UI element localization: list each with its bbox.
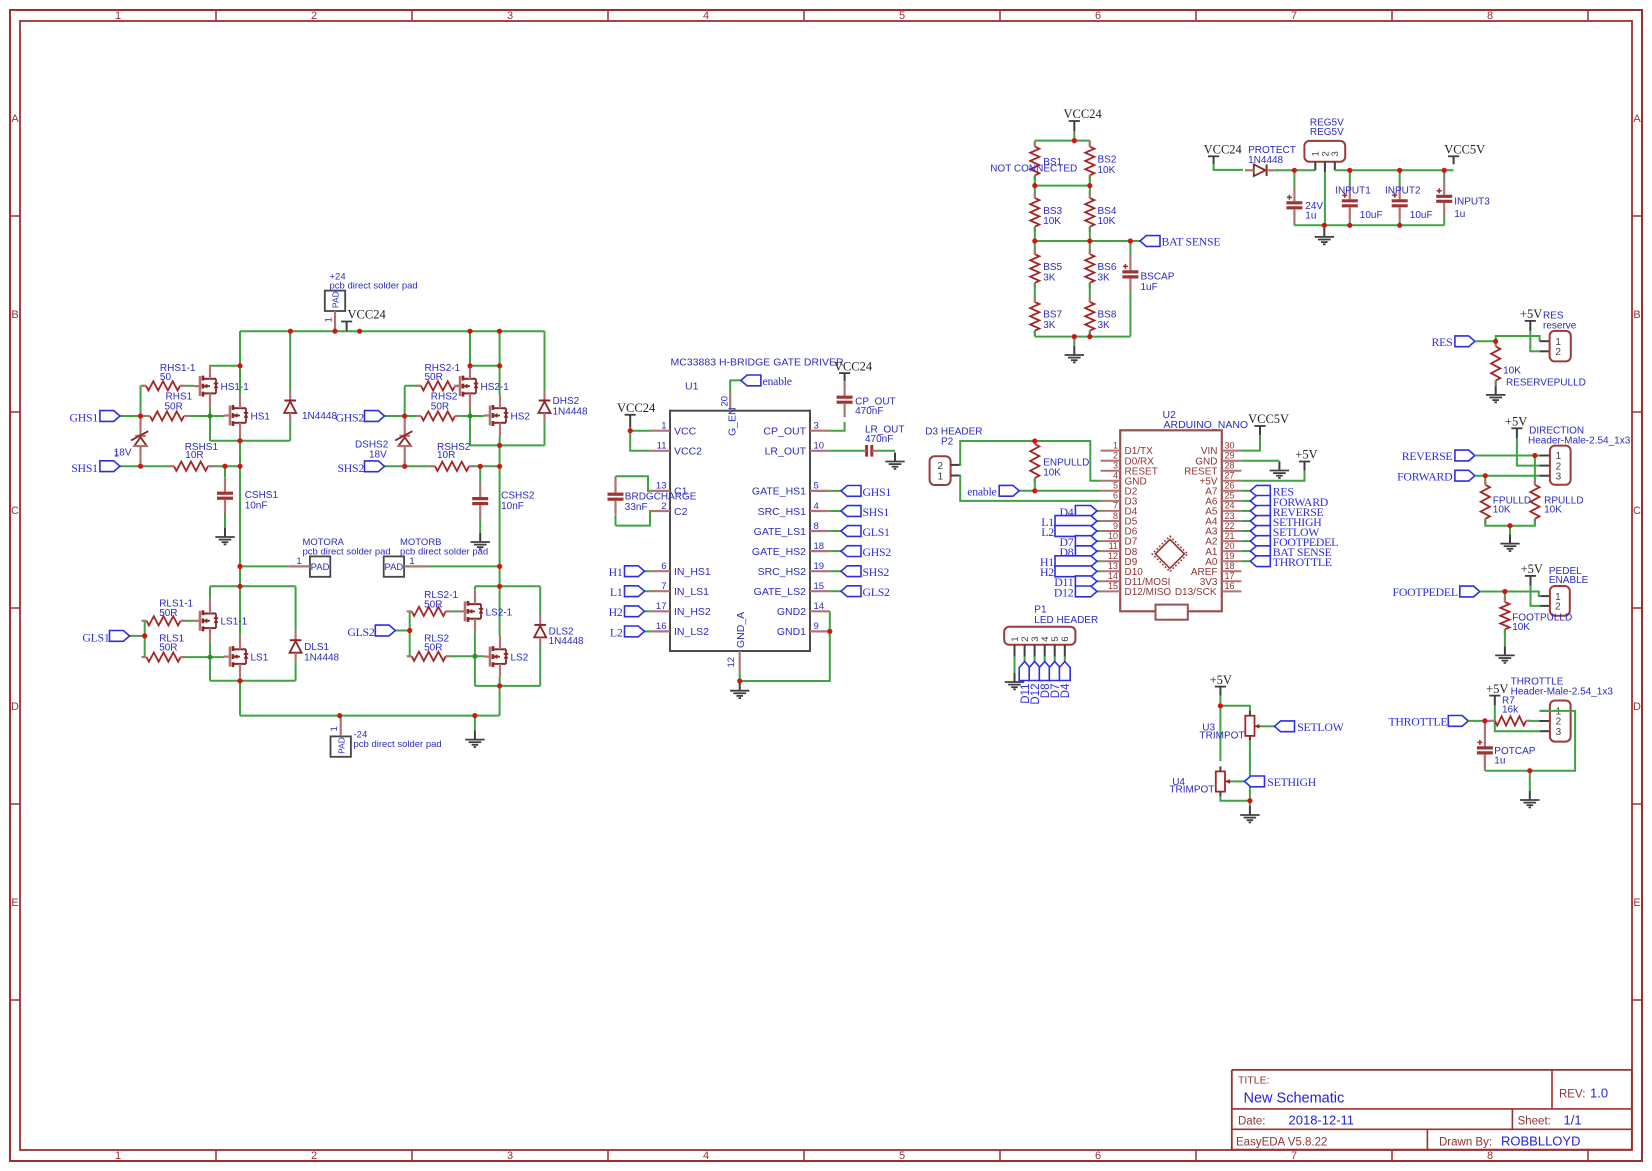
svg-text:INPUT1: INPUT1 xyxy=(1335,185,1371,196)
svg-text:Drawn By:: Drawn By: xyxy=(1439,1136,1492,1148)
svg-text:HS2: HS2 xyxy=(511,411,531,422)
svg-text:TITLE:: TITLE: xyxy=(1238,1075,1270,1087)
svg-text:GATE_LS2: GATE_LS2 xyxy=(754,586,806,598)
svg-text:16k: 16k xyxy=(1502,705,1519,716)
svg-text:LS1: LS1 xyxy=(251,653,269,664)
svg-text:Sheet:: Sheet: xyxy=(1518,1116,1551,1128)
svg-text:1N4448: 1N4448 xyxy=(302,411,337,422)
svg-text:+5V: +5V xyxy=(1520,307,1542,321)
svg-text:BS6: BS6 xyxy=(1098,262,1117,273)
svg-text:7: 7 xyxy=(661,581,666,592)
svg-text:GLS1: GLS1 xyxy=(863,525,891,539)
svg-text:8: 8 xyxy=(1487,1150,1493,1162)
svg-text:NOT CONNECTED: NOT CONNECTED xyxy=(990,164,1077,175)
svg-text:3: 3 xyxy=(507,1150,513,1162)
svg-text:ARDUINO_NANO: ARDUINO_NANO xyxy=(1164,419,1249,431)
svg-text:6: 6 xyxy=(1060,637,1071,642)
svg-text:VCC24: VCC24 xyxy=(348,308,387,322)
svg-text:20: 20 xyxy=(720,396,731,407)
svg-text:4: 4 xyxy=(1113,471,1118,481)
svg-text:BS5: BS5 xyxy=(1043,262,1062,273)
svg-text:GATE_HS2: GATE_HS2 xyxy=(752,546,806,558)
svg-text:SHS1: SHS1 xyxy=(863,505,890,519)
svg-text:DLS1: DLS1 xyxy=(304,642,329,653)
svg-text:P2: P2 xyxy=(941,436,954,447)
svg-text:21: 21 xyxy=(1225,531,1235,541)
svg-text:A: A xyxy=(1633,113,1641,125)
svg-text:EasyEDA V5.8.22: EasyEDA V5.8.22 xyxy=(1236,1136,1327,1148)
svg-text:CSHS1: CSHS1 xyxy=(245,490,279,501)
svg-text:25: 25 xyxy=(1225,491,1235,501)
svg-text:INPUT2: INPUT2 xyxy=(1385,185,1421,196)
svg-text:3: 3 xyxy=(507,10,513,22)
svg-text:SHS1: SHS1 xyxy=(71,461,98,475)
svg-text:GLS2: GLS2 xyxy=(347,625,375,639)
svg-text:10R: 10R xyxy=(437,450,455,461)
svg-text:REG5V: REG5V xyxy=(1310,127,1344,138)
svg-text:1: 1 xyxy=(1113,440,1118,450)
svg-text:FOOTPEDEL: FOOTPEDEL xyxy=(1393,585,1458,599)
svg-text:VCC5V: VCC5V xyxy=(1444,143,1485,157)
svg-text:1: 1 xyxy=(324,317,335,322)
svg-text:1u: 1u xyxy=(1305,211,1316,222)
svg-text:PAD: PAD xyxy=(331,291,341,308)
svg-text:19: 19 xyxy=(814,561,825,572)
svg-text:1: 1 xyxy=(661,421,666,432)
svg-text:ROBBLLOYD: ROBBLLOYD xyxy=(1501,1134,1580,1149)
svg-text:50R: 50R xyxy=(425,372,443,383)
svg-text:50R: 50R xyxy=(165,402,183,413)
svg-text:Date:: Date: xyxy=(1238,1116,1266,1128)
svg-text:18: 18 xyxy=(814,541,825,552)
svg-text:VCC: VCC xyxy=(674,426,697,438)
svg-text:PAD: PAD xyxy=(311,562,330,573)
svg-text:VCC24: VCC24 xyxy=(617,401,656,415)
svg-text:D12: D12 xyxy=(1054,585,1074,599)
svg-text:11: 11 xyxy=(1109,541,1118,551)
svg-text:9: 9 xyxy=(814,621,819,632)
svg-text:GND1: GND1 xyxy=(777,626,806,638)
svg-text:LS2: LS2 xyxy=(511,653,529,664)
svg-text:22: 22 xyxy=(1225,521,1235,531)
svg-text:3K: 3K xyxy=(1043,272,1056,283)
svg-text:enable: enable xyxy=(763,374,792,388)
svg-text:BRDGCHARGE: BRDGCHARGE xyxy=(625,492,697,503)
svg-text:3: 3 xyxy=(1556,471,1562,482)
svg-text:FORWARD: FORWARD xyxy=(1397,469,1453,483)
svg-text:10R: 10R xyxy=(185,450,203,461)
svg-text:1: 1 xyxy=(409,556,414,567)
svg-text:4: 4 xyxy=(703,1150,709,1162)
svg-text:1: 1 xyxy=(115,1150,121,1162)
svg-text:10nF: 10nF xyxy=(245,501,268,512)
svg-text:3K: 3K xyxy=(1098,320,1111,331)
svg-text:VCC24: VCC24 xyxy=(834,359,873,373)
svg-text:10uF: 10uF xyxy=(1360,210,1383,221)
svg-text:Header-Male-2.54_1x3: Header-Male-2.54_1x3 xyxy=(1511,686,1614,697)
svg-text:New Schematic: New Schematic xyxy=(1244,1091,1345,1107)
svg-text:reserve: reserve xyxy=(1543,321,1577,332)
svg-text:RESERVEPULLD: RESERVEPULLD xyxy=(1506,377,1586,388)
svg-text:17: 17 xyxy=(1225,571,1235,581)
svg-text:1u: 1u xyxy=(1454,209,1465,220)
svg-text:1N4448: 1N4448 xyxy=(304,652,339,663)
svg-text:VCC24: VCC24 xyxy=(1204,143,1243,157)
svg-text:470nF: 470nF xyxy=(855,406,883,417)
svg-text:ENABLE: ENABLE xyxy=(1549,575,1589,586)
svg-text:4: 4 xyxy=(814,501,819,512)
svg-text:Header-Male-2.54_1x3: Header-Male-2.54_1x3 xyxy=(1528,436,1631,447)
svg-text:5: 5 xyxy=(814,481,819,492)
svg-text:50R: 50R xyxy=(159,608,177,619)
svg-text:GHS2: GHS2 xyxy=(336,411,365,425)
svg-text:IN_LS1: IN_LS1 xyxy=(674,586,709,598)
svg-text:BS2: BS2 xyxy=(1098,154,1117,165)
svg-text:BSCAP: BSCAP xyxy=(1141,272,1175,283)
svg-text:H2: H2 xyxy=(1040,565,1054,579)
svg-text:10K: 10K xyxy=(1098,216,1116,227)
svg-text:1/1: 1/1 xyxy=(1564,1113,1582,1128)
svg-text:P1: P1 xyxy=(1034,604,1047,615)
svg-text:GLS1: GLS1 xyxy=(82,631,110,645)
svg-text:HS2-1: HS2-1 xyxy=(481,382,510,393)
svg-text:PAD: PAD xyxy=(384,562,403,573)
svg-text:+5V: +5V xyxy=(1210,673,1232,687)
svg-text:GHS1: GHS1 xyxy=(70,411,99,425)
svg-text:BS7: BS7 xyxy=(1043,310,1062,321)
svg-text:50: 50 xyxy=(160,372,172,383)
svg-text:18: 18 xyxy=(1225,561,1235,571)
svg-text:10K: 10K xyxy=(1544,505,1562,516)
svg-text:1.0: 1.0 xyxy=(1590,1086,1608,1101)
svg-text:10K: 10K xyxy=(1043,468,1061,479)
svg-text:+5V: +5V xyxy=(1505,415,1527,429)
svg-text:28: 28 xyxy=(1225,461,1235,471)
svg-text:E: E xyxy=(1633,897,1640,909)
svg-text:10: 10 xyxy=(1108,531,1118,541)
svg-text:18V: 18V xyxy=(369,449,387,460)
svg-text:50R: 50R xyxy=(431,402,449,413)
svg-text:3: 3 xyxy=(1556,727,1562,738)
svg-text:GLS2: GLS2 xyxy=(863,585,891,599)
svg-text:50R: 50R xyxy=(424,599,442,610)
svg-text:1N4448: 1N4448 xyxy=(553,406,588,417)
svg-text:+5V: +5V xyxy=(1295,448,1317,462)
svg-text:7: 7 xyxy=(1113,501,1118,511)
svg-text:H2: H2 xyxy=(609,605,623,619)
svg-text:TRIMPOT: TRIMPOT xyxy=(1169,785,1214,796)
svg-text:SRC_HS2: SRC_HS2 xyxy=(758,566,807,578)
svg-text:17: 17 xyxy=(656,601,667,612)
svg-text:10K: 10K xyxy=(1512,622,1530,633)
svg-text:14: 14 xyxy=(1108,571,1118,581)
svg-text:H1: H1 xyxy=(609,565,623,579)
svg-text:B: B xyxy=(1633,309,1640,321)
svg-text:RES: RES xyxy=(1432,335,1453,349)
svg-text:pcb direct solder pad: pcb direct solder pad xyxy=(303,546,391,557)
svg-text:3: 3 xyxy=(1113,461,1118,471)
svg-text:D4: D4 xyxy=(1060,683,1072,698)
svg-text:2: 2 xyxy=(938,461,944,472)
svg-text:SHS2: SHS2 xyxy=(863,565,890,579)
svg-text:THROTTLE: THROTTLE xyxy=(1273,555,1332,569)
svg-text:CP_OUT: CP_OUT xyxy=(763,426,806,438)
svg-text:6: 6 xyxy=(1095,1150,1101,1162)
svg-text:L2: L2 xyxy=(610,625,623,639)
svg-text:15: 15 xyxy=(1108,581,1118,591)
svg-text:10uF: 10uF xyxy=(1410,210,1433,221)
svg-text:IN_HS1: IN_HS1 xyxy=(674,566,711,578)
svg-text:33nF: 33nF xyxy=(625,502,648,513)
svg-text:12: 12 xyxy=(1108,551,1118,561)
svg-text:4: 4 xyxy=(703,10,709,22)
svg-text:VCC2: VCC2 xyxy=(674,446,702,458)
svg-text:VCC24: VCC24 xyxy=(1064,107,1103,121)
svg-text:27: 27 xyxy=(1225,471,1235,481)
svg-text:C: C xyxy=(1633,505,1641,517)
svg-text:15: 15 xyxy=(814,581,825,592)
svg-text:13: 13 xyxy=(656,481,667,492)
svg-text:10: 10 xyxy=(814,441,825,452)
svg-text:D13/SCK: D13/SCK xyxy=(1175,587,1217,598)
svg-text:GND_A: GND_A xyxy=(735,612,747,648)
svg-text:LS1-1: LS1-1 xyxy=(221,617,248,628)
svg-text:10K: 10K xyxy=(1493,505,1511,516)
svg-text:30: 30 xyxy=(1225,440,1235,450)
svg-text:SRC_HS1: SRC_HS1 xyxy=(758,506,807,518)
svg-text:SETHIGH: SETHIGH xyxy=(1267,775,1316,789)
svg-text:9: 9 xyxy=(1113,521,1118,531)
svg-text:24: 24 xyxy=(1225,501,1235,511)
svg-text:BS3: BS3 xyxy=(1043,206,1062,217)
svg-text:GHS2: GHS2 xyxy=(863,545,892,559)
svg-text:VCC5V: VCC5V xyxy=(1248,412,1289,426)
svg-text:D3 HEADER: D3 HEADER xyxy=(925,427,982,438)
svg-text:1: 1 xyxy=(329,726,340,731)
svg-text:3K: 3K xyxy=(1098,272,1111,283)
svg-text:pcb direct solder pad: pcb direct solder pad xyxy=(330,281,418,292)
svg-text:REVERSE: REVERSE xyxy=(1402,449,1453,463)
svg-text:BS4: BS4 xyxy=(1098,206,1117,217)
svg-text:16: 16 xyxy=(1225,581,1235,591)
svg-text:+5V: +5V xyxy=(1486,682,1508,696)
svg-text:14: 14 xyxy=(814,601,825,612)
svg-text:G_EN: G_EN xyxy=(726,407,738,436)
svg-text:10K: 10K xyxy=(1098,165,1116,176)
svg-text:HS1-1: HS1-1 xyxy=(221,382,250,393)
svg-text:LED HEADER: LED HEADER xyxy=(1034,615,1098,626)
svg-text:16: 16 xyxy=(656,621,667,632)
svg-text:8: 8 xyxy=(1113,511,1118,521)
svg-text:20: 20 xyxy=(1225,541,1235,551)
svg-text:1: 1 xyxy=(114,449,119,459)
svg-text:SHS2: SHS2 xyxy=(337,461,364,475)
svg-text:DHS2: DHS2 xyxy=(553,396,580,407)
svg-text:2: 2 xyxy=(1555,602,1561,613)
svg-text:1N4448: 1N4448 xyxy=(549,636,584,647)
svg-text:A: A xyxy=(11,113,19,125)
svg-text:+5V: +5V xyxy=(1521,562,1543,576)
svg-text:1: 1 xyxy=(115,10,121,22)
svg-text:E: E xyxy=(11,897,18,909)
svg-text:PROTECT: PROTECT xyxy=(1248,145,1296,156)
svg-text:11: 11 xyxy=(657,441,667,452)
svg-text:L1: L1 xyxy=(610,585,623,599)
svg-text:C: C xyxy=(11,505,19,517)
svg-text:6: 6 xyxy=(1095,10,1101,22)
svg-text:10nF: 10nF xyxy=(501,501,524,512)
svg-text:1: 1 xyxy=(296,556,301,567)
svg-text:D: D xyxy=(11,701,19,713)
svg-text:GND2: GND2 xyxy=(777,606,806,618)
svg-text:29: 29 xyxy=(1225,451,1235,461)
svg-text:2: 2 xyxy=(1555,347,1561,358)
svg-text:D12/MISO: D12/MISO xyxy=(1125,587,1172,598)
svg-text:LS2-1: LS2-1 xyxy=(486,607,513,618)
svg-text:8: 8 xyxy=(1487,10,1493,22)
svg-text:LR_OUT: LR_OUT xyxy=(765,446,807,458)
svg-text:BS1: BS1 xyxy=(1043,157,1062,168)
svg-text:BAT SENSE: BAT SENSE xyxy=(1162,235,1221,249)
svg-text:HS1: HS1 xyxy=(251,411,271,422)
svg-text:10K: 10K xyxy=(1043,216,1061,227)
svg-text:INPUT3: INPUT3 xyxy=(1454,197,1490,208)
svg-text:2: 2 xyxy=(1113,451,1118,461)
svg-text:3: 3 xyxy=(814,421,819,432)
svg-text:BS8: BS8 xyxy=(1098,310,1117,321)
svg-text:REV:: REV: xyxy=(1559,1089,1585,1101)
svg-text:U1: U1 xyxy=(685,381,699,393)
svg-text:7: 7 xyxy=(1291,1150,1297,1162)
svg-text:8: 8 xyxy=(814,521,819,532)
svg-text:19: 19 xyxy=(1225,551,1235,561)
svg-text:5: 5 xyxy=(1113,481,1118,491)
svg-text:TRIMPOT: TRIMPOT xyxy=(1200,731,1245,742)
svg-text:GATE_HS1: GATE_HS1 xyxy=(752,486,806,498)
svg-text:IN_LS2: IN_LS2 xyxy=(674,626,709,638)
svg-text:1N4448: 1N4448 xyxy=(1248,155,1283,166)
svg-text:13: 13 xyxy=(1108,561,1118,571)
svg-text:470nF: 470nF xyxy=(865,434,893,445)
svg-text:IN_HS2: IN_HS2 xyxy=(674,606,711,618)
svg-text:THROTTLE: THROTTLE xyxy=(1388,715,1447,729)
svg-text:CSHS2: CSHS2 xyxy=(501,490,535,501)
svg-text:C2: C2 xyxy=(674,506,688,518)
svg-text:2: 2 xyxy=(311,1150,317,1162)
svg-text:B: B xyxy=(11,309,18,321)
svg-text:PAD: PAD xyxy=(336,737,346,754)
svg-text:L2: L2 xyxy=(1041,525,1054,539)
svg-text:50R: 50R xyxy=(159,643,177,654)
svg-text:23: 23 xyxy=(1225,511,1235,521)
svg-text:1u: 1u xyxy=(1494,755,1505,766)
svg-text:1: 1 xyxy=(938,471,944,482)
svg-text:1uF: 1uF xyxy=(1141,282,1158,293)
svg-text:6: 6 xyxy=(661,561,666,572)
svg-text:50R: 50R xyxy=(424,643,442,654)
svg-text:5: 5 xyxy=(899,10,905,22)
svg-text:7: 7 xyxy=(1291,10,1297,22)
svg-text:GATE_LS1: GATE_LS1 xyxy=(754,526,806,538)
svg-text:3K: 3K xyxy=(1043,320,1056,331)
svg-text:GHS1: GHS1 xyxy=(863,485,892,499)
svg-text:6: 6 xyxy=(1113,491,1118,501)
svg-text:12: 12 xyxy=(726,657,737,668)
svg-text:10K: 10K xyxy=(1503,366,1521,377)
svg-text:D: D xyxy=(1633,701,1641,713)
svg-text:enable: enable xyxy=(967,484,996,498)
svg-text:pcb direct solder pad: pcb direct solder pad xyxy=(354,739,442,750)
svg-text:2018-12-11: 2018-12-11 xyxy=(1289,1113,1355,1128)
svg-text:2: 2 xyxy=(311,10,317,22)
svg-text:3: 3 xyxy=(1330,151,1341,156)
svg-text:5: 5 xyxy=(899,1150,905,1162)
svg-text:26: 26 xyxy=(1225,481,1235,491)
svg-text:SETLOW: SETLOW xyxy=(1297,720,1344,734)
svg-text:MC33883 H-BRIDGE GATE DRIVER: MC33883 H-BRIDGE GATE DRIVER xyxy=(671,356,845,368)
